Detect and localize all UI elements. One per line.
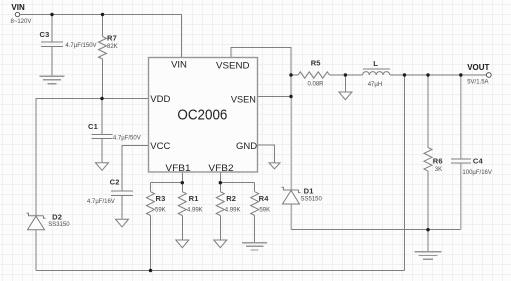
svg-text:C3: C3 [40, 30, 50, 39]
svg-text:R5: R5 [311, 59, 321, 68]
svg-text:VSEN: VSEN [231, 94, 256, 105]
svg-text:VOUT: VOUT [467, 63, 489, 72]
ground (switch node) [339, 92, 352, 100]
svg-text:VFB2: VFB2 [208, 163, 233, 174]
wire VOUT right riser [404, 75, 406, 271]
node switch/R5 junction [289, 73, 292, 76]
diode D1 [282, 187, 301, 204]
svg-text:GND: GND [236, 141, 257, 152]
svg-text:D2: D2 [52, 212, 62, 221]
resistor R2 [216, 192, 224, 216]
diode D2 [27, 213, 46, 230]
resistor R5 [298, 72, 330, 78]
ground (C2) [116, 219, 129, 227]
node VDD/C1 junction [100, 97, 103, 100]
wire VSEND to switch node [231, 48, 291, 76]
node R5/L junction [344, 73, 347, 76]
svg-text:C1: C1 [88, 122, 98, 131]
wire C3 to ground [51, 47, 53, 77]
wire VSEN node down to D1 cathode [290, 97, 292, 191]
capacitor C3 [41, 42, 63, 47]
wire C4 top lead [460, 75, 462, 159]
wire C3 top lead [51, 15, 53, 43]
wire C1 to ground [101, 139, 103, 163]
wire R7 top lead [102, 15, 104, 37]
svg-text:47µH: 47µH [368, 82, 382, 88]
terminal VIN [15, 12, 19, 16]
node VIN/R7 junction [101, 13, 104, 16]
svg-text:R6: R6 [433, 157, 443, 166]
svg-text:59K: 59K [155, 207, 166, 213]
svg-text:C4: C4 [473, 157, 484, 166]
svg-text:R4: R4 [259, 194, 270, 203]
wire R5 right lead [330, 74, 346, 76]
svg-text:3K: 3K [435, 167, 442, 173]
node VFB1 junction [181, 181, 184, 184]
wire ground rail stub [427, 230, 429, 252]
svg-text:8~120V: 8~120V [11, 19, 32, 25]
svg-text:0.08R: 0.08R [308, 81, 325, 87]
svg-text:R7: R7 [107, 33, 117, 42]
wire R1 top lead [181, 183, 183, 192]
node VFB2 junction [219, 181, 222, 184]
resistor R7 [99, 37, 107, 60]
svg-text:4.7µF/150V: 4.7µF/150V [65, 43, 96, 49]
svg-text:SS5150: SS5150 [301, 196, 323, 202]
svg-text:VFB1: VFB1 [165, 163, 190, 174]
svg-text:SS3150: SS3150 [48, 222, 70, 228]
wire L to VOUT rail [390, 74, 487, 76]
op-amp/controller U1 OC2006 [149, 58, 258, 174]
resistor R6 [424, 148, 432, 172]
node R6 top junction [426, 73, 429, 76]
wire switch node ground stub [344, 75, 346, 92]
svg-text:4.7µF/16V: 4.7µF/16V [87, 199, 115, 205]
svg-text:VCC: VCC [150, 141, 170, 152]
wire VIN rail to IC VIN pin [20, 15, 182, 58]
wire R5 left lead [291, 74, 298, 76]
wire R7 bottom lead [102, 59, 104, 99]
svg-text:C2: C2 [110, 178, 120, 187]
wire ground rail [291, 229, 461, 231]
wire R1 to ground [181, 216, 183, 240]
wire C4 bottom lead [460, 163, 462, 230]
capacitor C1 [92, 135, 113, 139]
capacitor C4 [451, 159, 471, 163]
wire D1 anode down [290, 204, 292, 230]
ground (R2) [214, 240, 227, 248]
svg-text:5V/1.5A: 5V/1.5A [467, 80, 488, 86]
wire R2 top lead [219, 183, 221, 192]
svg-text:100µF/16V: 100µF/16V [462, 170, 491, 176]
wire VFB1 branch to R3 [151, 182, 183, 184]
node VOUT riser junction [403, 73, 406, 76]
wire D2 anode down [35, 230, 37, 271]
ground (R1) [176, 240, 189, 248]
ground (C1) [96, 163, 109, 171]
resistor R4 [251, 192, 259, 216]
ground (IC GND pin) [269, 163, 280, 169]
wire VSEN pin [258, 96, 292, 98]
wire R6 bottom lead [427, 171, 429, 230]
ground (output) [415, 252, 442, 259]
capacitor C2 [111, 191, 133, 196]
svg-text:4.99K: 4.99K [187, 207, 203, 213]
wire GND pin to ground [258, 145, 275, 162]
resistor R1 [178, 192, 186, 216]
wire R2 to ground [219, 216, 221, 240]
wire bottom VOUT return rail [36, 270, 405, 272]
svg-text:OC2006: OC2006 [177, 106, 227, 123]
wire VFB1 pin stub [181, 172, 183, 183]
wire R3 top lead [150, 183, 152, 192]
node R3/return rail junction [149, 269, 152, 272]
resistor R3 [147, 192, 155, 216]
wire C1 top lead [101, 99, 103, 135]
wire VFB2 pin stub [219, 172, 221, 183]
svg-text:4.7µF/50V: 4.7µF/50V [113, 135, 141, 141]
terminal VOUT [486, 73, 491, 78]
wire L left lead [345, 74, 362, 76]
svg-text:VIN: VIN [171, 60, 187, 71]
wire R6 top lead [427, 75, 429, 148]
svg-text:59K: 59K [259, 207, 270, 213]
svg-text:4.99K: 4.99K [225, 207, 241, 213]
wire C2 to ground [121, 196, 123, 219]
svg-text:VSEND: VSEND [216, 61, 250, 72]
node VIN/C3 junction [50, 13, 53, 16]
node C4 top junction [459, 73, 462, 76]
wire switch node down to VSEN [290, 75, 292, 97]
ground (R4) [242, 243, 267, 250]
svg-text:R1: R1 [189, 194, 199, 203]
svg-text:L: L [373, 59, 378, 68]
inductor L [363, 69, 390, 75]
wire VFB2 branch to R4 [220, 182, 254, 184]
node VSEN junction [289, 95, 292, 98]
svg-text:R3: R3 [156, 194, 166, 203]
svg-text:VDD: VDD [150, 94, 170, 105]
wire R3 bottom to return rail [150, 216, 152, 271]
node ground rail junction [426, 228, 429, 231]
svg-text:D1: D1 [304, 187, 314, 196]
svg-text:VIN: VIN [11, 3, 25, 12]
wire VDD rail from D2 cathode [36, 99, 149, 216]
wire R4 top lead [254, 183, 256, 192]
wire R4 to ground [254, 216, 256, 243]
svg-text:R2: R2 [226, 194, 236, 203]
ground (C3) [40, 76, 65, 83]
wire VCC pin to C2 [122, 146, 149, 192]
svg-text:82K: 82K [107, 44, 118, 50]
